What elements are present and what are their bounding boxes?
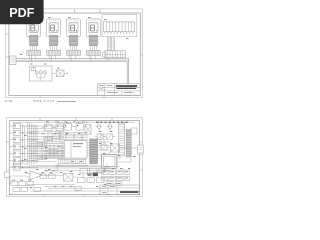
svg-text:4096-9-048: 4096-9-048 (33, 99, 54, 103)
svg-text:17-05: 17-05 (4, 99, 12, 103)
svg-text:PDF: PDF (9, 6, 34, 20)
